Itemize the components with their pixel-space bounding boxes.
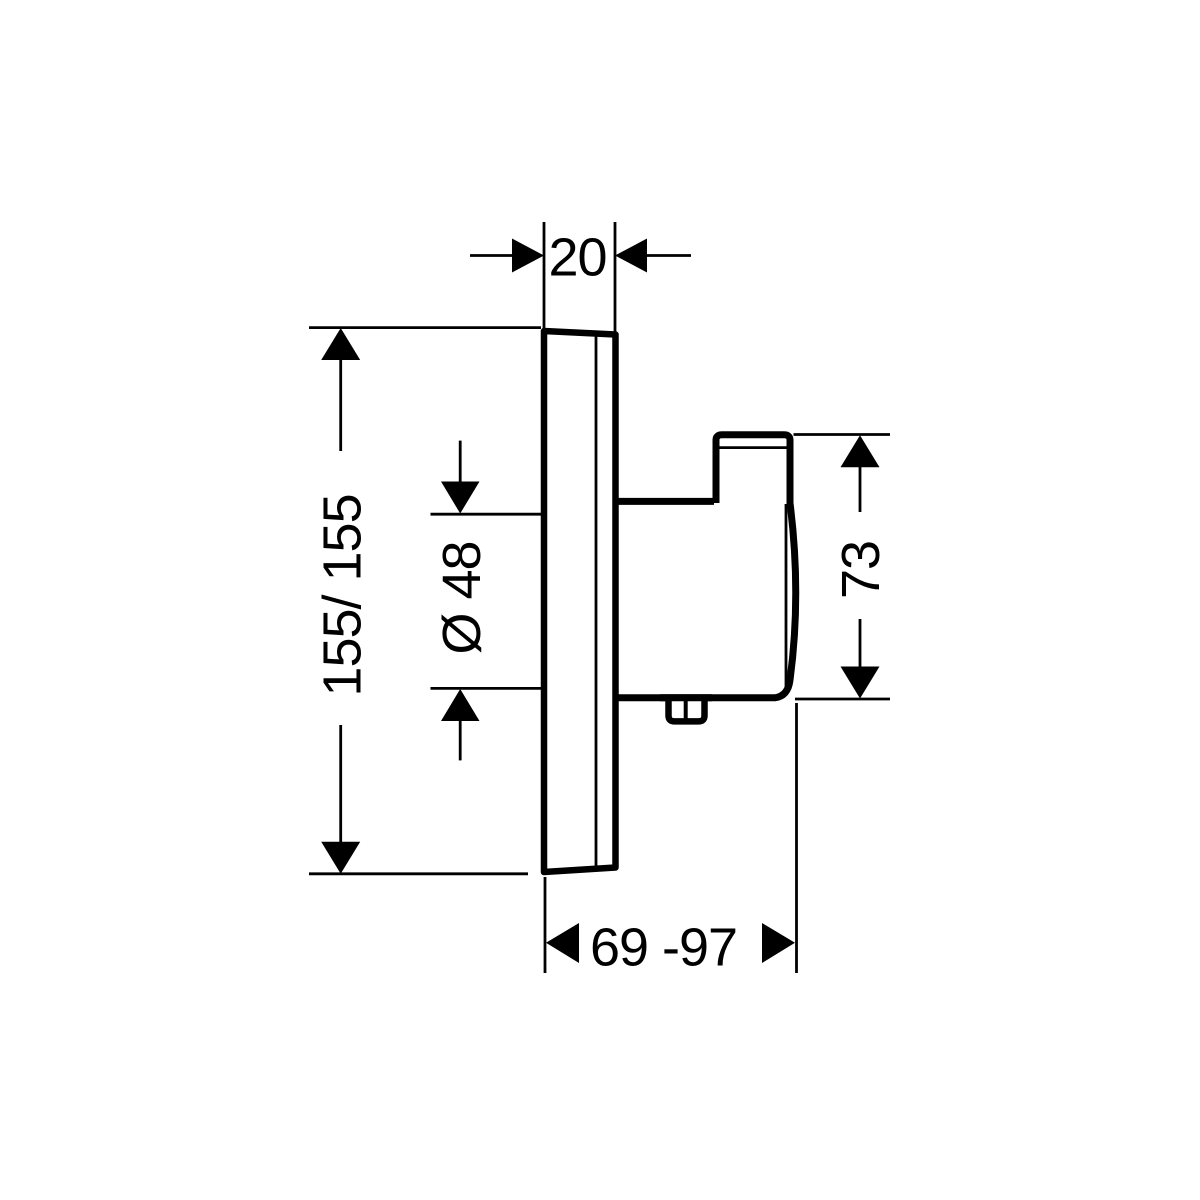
- plate inner edge line: [595, 334, 598, 867]
- valve body top edge: [616, 498, 714, 505]
- svg-text:69 -97: 69 -97: [590, 918, 737, 978]
- dim d48: bottom line: [431, 687, 544, 690]
- dim 155/155: lower line segment: [339, 725, 342, 842]
- nub divider: [684, 700, 688, 719]
- dim 20: right arrow: [615, 239, 647, 273]
- dim 69-97: left extension line: [544, 877, 547, 973]
- dim 69-97: right arrow: [762, 923, 795, 963]
- dim 20: left arrow: [512, 239, 544, 273]
- dim 155/155: top arrow: [321, 328, 360, 360]
- nub below body: [669, 697, 705, 721]
- dim 155/155: bottom arrow: [321, 842, 360, 874]
- dim 20: left extension line: [543, 222, 546, 332]
- dim 73: bottom arrow: [841, 667, 880, 699]
- dim 73: upper line segment: [859, 467, 862, 512]
- dim d48: bottom arrow: [441, 689, 480, 721]
- dim d48: top arrow: [441, 482, 480, 514]
- dim d48: top tail: [459, 441, 462, 482]
- body bottom edge over nub: [660, 694, 712, 701]
- body right curved face and bottom edge: [616, 503, 796, 698]
- dim 69-97: left arrow: [546, 923, 579, 963]
- svg-text:155/ 155: 155/ 155: [313, 494, 373, 696]
- dim 69-97: right extension line: [795, 703, 798, 973]
- dim d48: top line: [431, 513, 544, 516]
- dim 20: right extension line: [614, 222, 617, 335]
- dim 20: left tail: [470, 254, 513, 257]
- dim 73: top extension line: [794, 433, 891, 436]
- dim 20: right tail: [646, 254, 691, 257]
- dim 155/155: upper line segment: [339, 359, 342, 451]
- dim 155/155: top extension line: [309, 326, 541, 329]
- svg-text:Ø 48: Ø 48: [432, 541, 492, 654]
- dim 155/155: bottom extension line: [309, 872, 528, 875]
- body top edge thin continuation under knob: [716, 500, 788, 503]
- dim d48: bottom tail: [459, 720, 462, 760]
- knob inner line: [720, 446, 787, 449]
- knob (handle): [716, 435, 790, 503]
- dim 73: lower line segment: [859, 619, 862, 667]
- plate (escutcheon side view): [544, 331, 616, 872]
- svg-text:20: 20: [548, 228, 606, 288]
- dim 73: bottom extension line: [795, 698, 890, 701]
- body right face inner thin line: [785, 504, 788, 687]
- dim 73: top arrow: [841, 435, 880, 467]
- svg-text:73: 73: [831, 541, 891, 599]
